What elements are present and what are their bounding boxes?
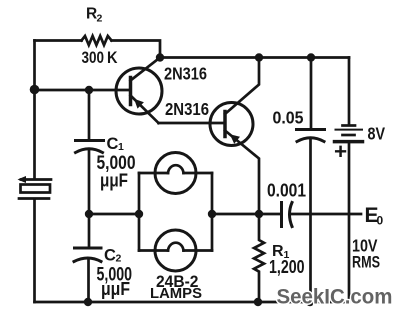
transistor Q2 emitter arrow: [230, 134, 240, 144]
wire top bus: [160, 56, 349, 59]
wire mid node left: [89, 213, 139, 216]
wire Q1 emitter to Q2 base: [159, 122, 225, 125]
svg-text:K: K: [107, 48, 118, 67]
wire battery drop: [348, 58, 351, 125]
svg-text:0: 0: [377, 214, 384, 228]
node junction dot left crystal: [30, 85, 40, 95]
node junction dot top 0.05: [307, 53, 315, 61]
svg-text:1: 1: [118, 141, 124, 153]
wire 0.05 top lead: [310, 58, 313, 130]
wire top left horizontal: [35, 39, 82, 42]
node junction dot lamp right: [208, 210, 216, 218]
capacitor C3 0.001 curved plate: [290, 203, 293, 227]
transistor Q2 emitter: [225, 131, 259, 215]
wire base node Q1: [35, 89, 130, 92]
node junction dot Q2 emitter mid: [255, 210, 263, 218]
svg-text:+: +: [334, 139, 347, 164]
svg-text:μμF: μμF: [101, 279, 130, 299]
wire 0.05 bottom lead: [309, 139, 312, 302]
transistor Q2 collector: [225, 58, 259, 115]
wire C2 bottom lead: [87, 259, 90, 302]
svg-text:2N316: 2N316: [165, 99, 209, 119]
transistor Q2 base bar: [223, 112, 227, 137]
lamp bracket right: [211, 173, 214, 251]
transistor Q2 circle: [210, 103, 253, 146]
wire C2 top lead: [74, 214, 101, 302]
transistor Q1 base bar: [129, 78, 133, 105]
svg-text:RMS: RMS: [352, 253, 380, 272]
capacitor C1 flat plate: [76, 139, 104, 142]
capacitor C2 curved plate: [74, 258, 101, 262]
svg-text:1,200: 1,200: [269, 257, 305, 277]
svg-text:LAMPS: LAMPS: [150, 286, 202, 302]
lamp bracket left: [138, 173, 141, 251]
capacitor C2 flat plate: [75, 247, 102, 250]
node junction dot C2 bottom: [84, 298, 92, 306]
lamp DS1 filament bump: [168, 165, 184, 173]
transistor Q1 emitter: [131, 96, 159, 124]
capacitor C3 0.001 flat plate: [280, 203, 283, 227]
node junction dot C1 top: [85, 86, 93, 94]
node junction dot lamp left: [135, 210, 143, 218]
capacitor C1 curved plate: [76, 149, 103, 153]
svg-text:0.05: 0.05: [273, 108, 304, 128]
svg-text:8V: 8V: [368, 124, 386, 144]
svg-text:2: 2: [97, 13, 103, 25]
transistor Q1 circle: [116, 68, 162, 114]
lamp DS2 filament bump: [168, 243, 184, 251]
transistor Q1 emitter arrow: [134, 99, 144, 109]
lamp DS1 circle: [155, 153, 196, 194]
crystal Y1 top plate: [21, 178, 51, 181]
battery B1 plates 8V: [343, 124, 356, 127]
transistor Q1 collector: [131, 58, 161, 81]
svg-text:SeekIC.com: SeekIC.com: [277, 285, 393, 309]
crystal Y1 body rect: [21, 185, 51, 193]
wire C1 bottom lead: [88, 150, 91, 214]
wire top right of R2: [112, 41, 161, 58]
lamp DS2 leads: [139, 249, 168, 252]
wire battery bottom lead: [348, 143, 351, 302]
node junction dot top Q1 collector: [156, 53, 164, 61]
wire left vertical upper: [33, 41, 36, 179]
svg-text:μμF: μμF: [100, 171, 128, 191]
wire left vertical lower: [33, 200, 36, 303]
node junction dot C1 bottom: [85, 210, 93, 218]
crystal arrow head: [18, 176, 27, 183]
svg-text:2: 2: [116, 253, 122, 265]
wire bottom bus: [35, 301, 350, 304]
svg-text:C: C: [104, 247, 116, 265]
node junction dot top Q2 collector: [255, 53, 263, 61]
wire mid node right: [212, 213, 280, 216]
capacitor C4 0.05 curved plate: [297, 138, 324, 142]
resistor R1 zigzag: [254, 214, 264, 302]
svg-text:2N316: 2N316: [164, 64, 207, 84]
node junction dot R1 bottom: [254, 298, 262, 306]
crystal Y1 bottom plate: [19, 197, 49, 200]
node junction dot 0.05 bottom: [306, 298, 314, 306]
svg-text:300: 300: [82, 48, 105, 67]
capacitor C4 0.05 flat plate: [297, 128, 325, 131]
svg-text:0.001: 0.001: [267, 181, 306, 201]
wire C1 top lead: [88, 90, 91, 140]
wire output to E0: [290, 213, 361, 216]
lamp DS1 leads: [139, 172, 168, 175]
lamp DS2 circle: [155, 230, 196, 271]
resistor R2 zigzag: [82, 36, 112, 45]
svg-text:C: C: [107, 135, 119, 153]
